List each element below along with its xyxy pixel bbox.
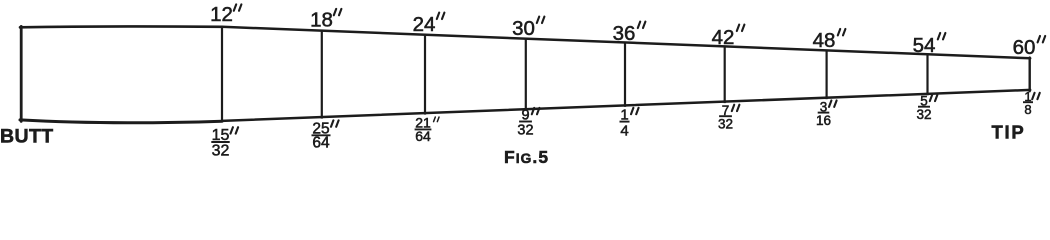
svg-text:8: 8	[1024, 102, 1031, 117]
station label 48 inches (top)	[813, 29, 846, 52]
svg-text:4: 4	[620, 123, 628, 140]
diameter label 5/32 inch (bottom)	[916, 93, 937, 122]
svg-text:48: 48	[813, 29, 836, 52]
diameter label 7/32 inch (bottom)	[718, 103, 739, 132]
spar outline: top edge, flat butt section	[20, 25, 222, 28]
station line at 36 inches	[624, 42, 626, 107]
svg-text:60: 60	[1013, 36, 1036, 59]
station label 30 inches (top)	[512, 17, 544, 40]
station line at 54 inches	[926, 54, 928, 96]
station line at 12 inches	[221, 26, 223, 122]
diameter label 9/32 inch (bottom)	[517, 108, 539, 139]
station line at 30 inches	[525, 38, 527, 111]
station line at 48 inches	[825, 50, 827, 99]
svg-text:32: 32	[517, 123, 533, 139]
spar outline: bottom edge, tapered section	[222, 90, 1030, 121]
diameter label 21/64 inch (bottom)	[415, 115, 439, 145]
spar outline: left (butt) edge	[20, 26, 23, 121]
diameter label 25/64 inch (bottom)	[312, 120, 339, 151]
svg-text:64: 64	[312, 135, 330, 152]
svg-text:32: 32	[718, 117, 733, 132]
station label 24 inches (top)	[413, 13, 445, 36]
station label 18 inches (top)	[310, 8, 341, 31]
svg-text:12: 12	[210, 3, 233, 26]
spar outline: bottom edge, flat butt section	[20, 120, 222, 123]
svg-text:54: 54	[913, 34, 936, 57]
svg-text:24: 24	[413, 13, 436, 36]
svg-text:42: 42	[712, 26, 735, 49]
svg-text:32: 32	[916, 107, 931, 122]
station label 60 inches (top)	[1013, 36, 1046, 59]
station line at 24 inches	[424, 34, 426, 114]
svg-text:16: 16	[816, 113, 831, 128]
station label 36 inches (top)	[613, 22, 646, 45]
diameter label 1/4 inch (bottom)	[620, 107, 639, 140]
svg-text:18: 18	[310, 8, 333, 31]
svg-text:BUTT: BUTT	[0, 126, 54, 148]
svg-text:64: 64	[415, 128, 431, 144]
spar outline: top edge, tapered section	[222, 27, 1030, 59]
station line at 42 inches	[724, 46, 726, 103]
station line at 18 inches	[321, 30, 323, 118]
svg-text:32: 32	[212, 143, 230, 160]
spar outline: right (tip) edge	[1028, 58, 1030, 92]
station label 54 inches (top)	[913, 33, 946, 57]
diameter label 15/32 inch (bottom)	[211, 127, 238, 160]
svg-text:TIP: TIP	[992, 122, 1026, 143]
diameter label 1/8 inch (bottom)	[1023, 89, 1040, 117]
svg-text:30: 30	[512, 17, 535, 40]
svg-text:36: 36	[613, 22, 636, 45]
diameter label 3/16 inch (bottom)	[816, 99, 837, 128]
station label 42 inches (top)	[712, 25, 745, 49]
station label 12 inches (top)	[210, 3, 241, 26]
